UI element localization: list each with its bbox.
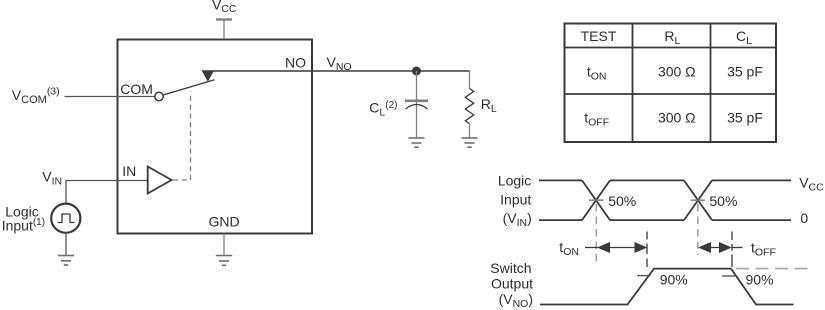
dashed control line horizontal <box>173 179 191 181</box>
dashed gray reference line from X2 <box>697 204 699 255</box>
90% tick fall <box>722 275 736 277</box>
svg-text:300 Ω: 300 Ω <box>658 110 696 126</box>
DUT box U1 <box>118 40 313 234</box>
input transition X2 <box>684 180 712 220</box>
svg-text:Logic: Logic <box>498 173 531 189</box>
dashed control line vertical <box>190 92 192 181</box>
tON arrow shaft <box>605 247 640 249</box>
tOFF arrowhead left <box>698 242 711 253</box>
tOFF arrowhead right <box>719 242 732 253</box>
wire source to ground <box>65 233 67 255</box>
svg-text:COM: COM <box>120 81 153 97</box>
output waveform <box>540 269 794 305</box>
svg-text:GND: GND <box>209 214 240 230</box>
dashed gray reference line from X1 <box>595 204 597 263</box>
tOFF leader line <box>732 247 743 249</box>
svg-text:Input: Input <box>500 191 531 207</box>
90% tick rise <box>637 275 650 277</box>
capacitor CL top plate <box>405 100 428 103</box>
tick 90% rise vertical <box>646 232 648 268</box>
wire RL bottom <box>469 124 471 138</box>
wire VCOM to COM <box>65 96 155 98</box>
table column line 1 <box>632 24 634 143</box>
ground under RL <box>462 138 478 147</box>
tOFF arrow shaft <box>704 247 726 249</box>
tON arrowhead right <box>635 242 648 253</box>
wire VIN horizontal <box>66 180 147 182</box>
input transition X1 <box>582 180 610 220</box>
tON leader line <box>585 247 598 249</box>
svg-text:50%: 50% <box>608 193 636 209</box>
50% tick X1 <box>589 199 604 201</box>
switch throw triangle <box>202 70 215 81</box>
switch pole contact circle <box>155 92 163 100</box>
svg-text:35 pF: 35 pF <box>727 110 763 126</box>
wire VIN vertical <box>65 181 67 204</box>
svg-text:Output: Output <box>491 276 533 292</box>
svg-text:IN: IN <box>122 163 136 179</box>
switch blade <box>163 80 214 95</box>
svg-text:50%: 50% <box>709 193 737 209</box>
table row line 1 <box>565 47 777 49</box>
wire RL top <box>469 70 471 88</box>
svg-text:NO: NO <box>285 55 306 71</box>
tick 90% fall vertical <box>731 232 733 268</box>
wire NO output <box>213 70 470 72</box>
wire VCC stem <box>223 20 225 40</box>
node junction dot <box>412 67 421 76</box>
ground under pulse source <box>58 256 74 266</box>
50% tick X2 <box>691 199 706 201</box>
svg-text:35 pF: 35 pF <box>727 64 763 80</box>
pulse source glyph <box>58 214 75 223</box>
svg-text:90%: 90% <box>660 271 688 287</box>
pulse source circle <box>51 204 80 233</box>
capacitor CL bottom plate arc <box>406 105 428 110</box>
tON arrowhead left <box>597 242 610 253</box>
ground under box <box>216 256 232 266</box>
input waveform low segments <box>539 219 791 221</box>
table row line 2 <box>565 93 777 95</box>
resistor RL zigzag <box>465 89 473 124</box>
table column line 2 <box>710 24 712 143</box>
svg-text:300 Ω: 300 Ω <box>658 64 696 80</box>
buffer amplifier <box>148 167 172 194</box>
ground under CL <box>409 138 425 147</box>
table frame <box>565 24 777 143</box>
svg-text:Switch: Switch <box>490 260 531 276</box>
svg-text:TEST: TEST <box>581 28 617 44</box>
dashed gray high reference <box>736 268 814 270</box>
svg-text:0: 0 <box>800 210 808 226</box>
wire GND stem <box>223 234 225 256</box>
power VCC bar <box>216 18 232 20</box>
svg-text:90%: 90% <box>746 271 774 287</box>
input waveform high segments <box>539 179 791 181</box>
wire capacitor stem <box>416 71 418 138</box>
